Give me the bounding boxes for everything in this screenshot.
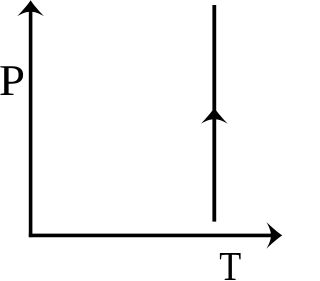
x-axis (T axis) wire bbox=[29, 234, 274, 238]
vertical process line bbox=[212, 5, 216, 222]
y-axis (P axis) wire bbox=[29, 6, 33, 237]
axis label P bbox=[0, 66, 23, 95]
y-axis arrowhead (up) bbox=[17, 0, 44, 16]
x-axis arrowhead (right) bbox=[266, 222, 282, 249]
axis label T bbox=[220, 253, 241, 280]
mid-line arrowhead (up) on process line bbox=[201, 108, 228, 124]
